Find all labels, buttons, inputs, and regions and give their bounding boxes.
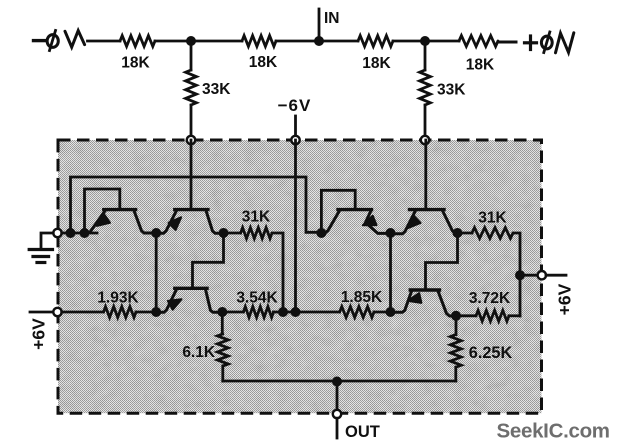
wire +6V node to 3.72K [519, 275, 522, 316]
transistor Q1 [90, 210, 157, 233]
wire [296, 311, 340, 314]
label R8 value [242, 209, 271, 226]
resistor R3 18K [358, 36, 393, 47]
svg-text:18K: 18K [466, 57, 495, 74]
wire [224, 232, 241, 235]
terminal: R6 to base of Q4 [421, 136, 429, 144]
wire node C to node I [155, 233, 158, 312]
ground [29, 250, 52, 263]
node D: Q2 collector [219, 228, 229, 238]
node J: Q5 collector [217, 307, 227, 317]
label +6V left (rotated) [29, 318, 49, 350]
label R7 value [97, 290, 139, 307]
wire [274, 311, 296, 314]
resistor R5 33K [186, 41, 197, 140]
node O: OUT junction [332, 377, 342, 387]
transistor Q5 [156, 288, 222, 312]
label R4 value [466, 57, 495, 74]
wire Q6 base hook [426, 233, 458, 290]
node N: Q6 collector [451, 311, 461, 321]
label R11 value [341, 289, 383, 306]
wire to ground [41, 233, 53, 249]
label R1 value [121, 55, 150, 72]
svg-text:SeekIC.com: SeekIC.com [497, 420, 610, 443]
resistor R14 6.25K [450, 316, 461, 381]
terminal: R5 to base of Q2 [187, 136, 195, 144]
node M: Q6 emitter [386, 307, 396, 317]
svg-text:+6V: +6V [555, 283, 575, 315]
resistor R6 33K [420, 41, 431, 140]
label OUT [345, 423, 380, 441]
resistor R8 31K [241, 228, 272, 239]
transistor Q4 [391, 210, 458, 234]
input phase label minus phi with triangle waveform [34, 31, 85, 51]
label R2 value [249, 54, 278, 71]
transistor Q3 [321, 210, 390, 234]
wire [191, 40, 242, 43]
wire [136, 311, 156, 314]
svg-text:18K: 18K [249, 54, 278, 71]
wire [498, 41, 516, 44]
node: R1/R2/R5 junction [186, 36, 196, 46]
wire cross-couple (node A to node E) [71, 177, 322, 233]
wire Q1 base hook [85, 189, 120, 233]
resistor R12 31K [472, 228, 513, 239]
watermark SeekIC.com [497, 420, 610, 443]
wire [88, 40, 121, 43]
-6V supply lead [294, 116, 297, 140]
label +6V right (rotated) [555, 283, 575, 315]
resistor R7 1.93K [104, 307, 137, 318]
wire +6V left lead [30, 311, 53, 314]
wire OUT lead [336, 382, 339, 411]
wire [456, 314, 476, 317]
label R14 value [469, 344, 513, 362]
Q2 base lead [190, 140, 193, 210]
wire [319, 40, 358, 43]
dashed package outline [58, 140, 542, 413]
node B: Q1 base tie [80, 228, 90, 238]
shaded hybrid IC region [58, 140, 542, 413]
node G: Q4 collector [453, 228, 463, 238]
svg-text:IN: IN [324, 10, 340, 27]
svg-text:+6V: +6V [29, 318, 49, 350]
svg-text:33K: 33K [202, 81, 231, 98]
wire [509, 314, 520, 317]
wire node F to node M [389, 233, 392, 312]
shaded region grain overlay [58, 140, 542, 413]
wire [62, 311, 104, 314]
label IN [324, 10, 340, 27]
node A: cross-couple takeoff [66, 228, 76, 238]
wire bottom bus [223, 380, 456, 383]
wire [336, 418, 339, 438]
wire R8 to lower rail [272, 233, 283, 312]
terminal: ground/emitter bus [53, 229, 61, 237]
svg-text:18K: 18K [121, 55, 150, 72]
wire [276, 40, 319, 43]
wire Q3 base hook [321, 190, 355, 233]
wire R12 to +6V node [513, 233, 520, 275]
svg-text:31K: 31K [242, 209, 271, 226]
svg-text:6.1K: 6.1K [182, 344, 216, 361]
svg-text:18K: 18K [362, 55, 391, 72]
resistor R13 3.72K [476, 310, 509, 321]
transistor Q2 [156, 210, 223, 234]
label -6V supply [278, 96, 312, 115]
transistor Q6 [391, 290, 458, 316]
terminal: +6V left [53, 308, 61, 316]
resistor R10 6.1K [217, 312, 228, 381]
svg-text:3.72K: 3.72K [469, 290, 511, 307]
node: IN junction [314, 36, 324, 46]
wire [155, 40, 191, 43]
svg-text:−6V: −6V [278, 96, 312, 115]
resistor R2 18K [242, 36, 276, 47]
node L: -6V rail junction [291, 307, 301, 317]
terminal: OUT [333, 410, 341, 418]
label R12 value [478, 210, 507, 227]
svg-text:31K: 31K [478, 210, 507, 227]
wire [222, 311, 243, 314]
label R3 value [362, 55, 391, 72]
resistor R11 1.85K [340, 307, 374, 318]
label R10 value [182, 344, 216, 361]
svg-text:6.25K: 6.25K [469, 344, 513, 362]
wire [425, 40, 459, 43]
node C: Q1 collector / Q2 emitter [151, 228, 161, 238]
wire emitter bus [62, 232, 97, 235]
wire [546, 274, 566, 277]
resistor R4 18K [459, 36, 498, 47]
svg-text:3.54K: 3.54K [236, 290, 278, 307]
wire [374, 311, 391, 314]
wire [393, 40, 425, 43]
terminal: +6V right [538, 271, 546, 279]
wire Q5 base hook [193, 233, 224, 289]
svg-text:1.93K: 1.93K [97, 290, 139, 307]
IN input lead [318, 9, 321, 41]
node I: Q5 emitter [151, 307, 161, 317]
wire [520, 274, 538, 277]
node F: Q3 collector / Q4 emitter [386, 228, 396, 238]
output phase label plus phi with sawtooth waveform [525, 32, 574, 53]
wire [458, 232, 472, 235]
resistor R9 3.54K [243, 307, 273, 318]
label R6 value [437, 82, 466, 99]
node E: Q3 emitter / cross-couple [316, 228, 326, 238]
svg-text:OUT: OUT [345, 423, 380, 441]
node K: R8 drop junction [278, 307, 288, 317]
label R9 value [236, 290, 278, 307]
Q4 base lead [424, 140, 427, 210]
svg-text:1.85K: 1.85K [341, 289, 383, 306]
label R5 value [202, 81, 231, 98]
label R13 value [469, 290, 511, 307]
terminal: -6V entry [291, 136, 299, 144]
node: R3/R4/R6 junction [420, 36, 430, 46]
-6V internal lead [294, 140, 297, 312]
resistor R1 18K [120, 36, 155, 47]
svg-text:33K: 33K [437, 82, 466, 99]
node H: +6V rail junction [515, 270, 525, 280]
